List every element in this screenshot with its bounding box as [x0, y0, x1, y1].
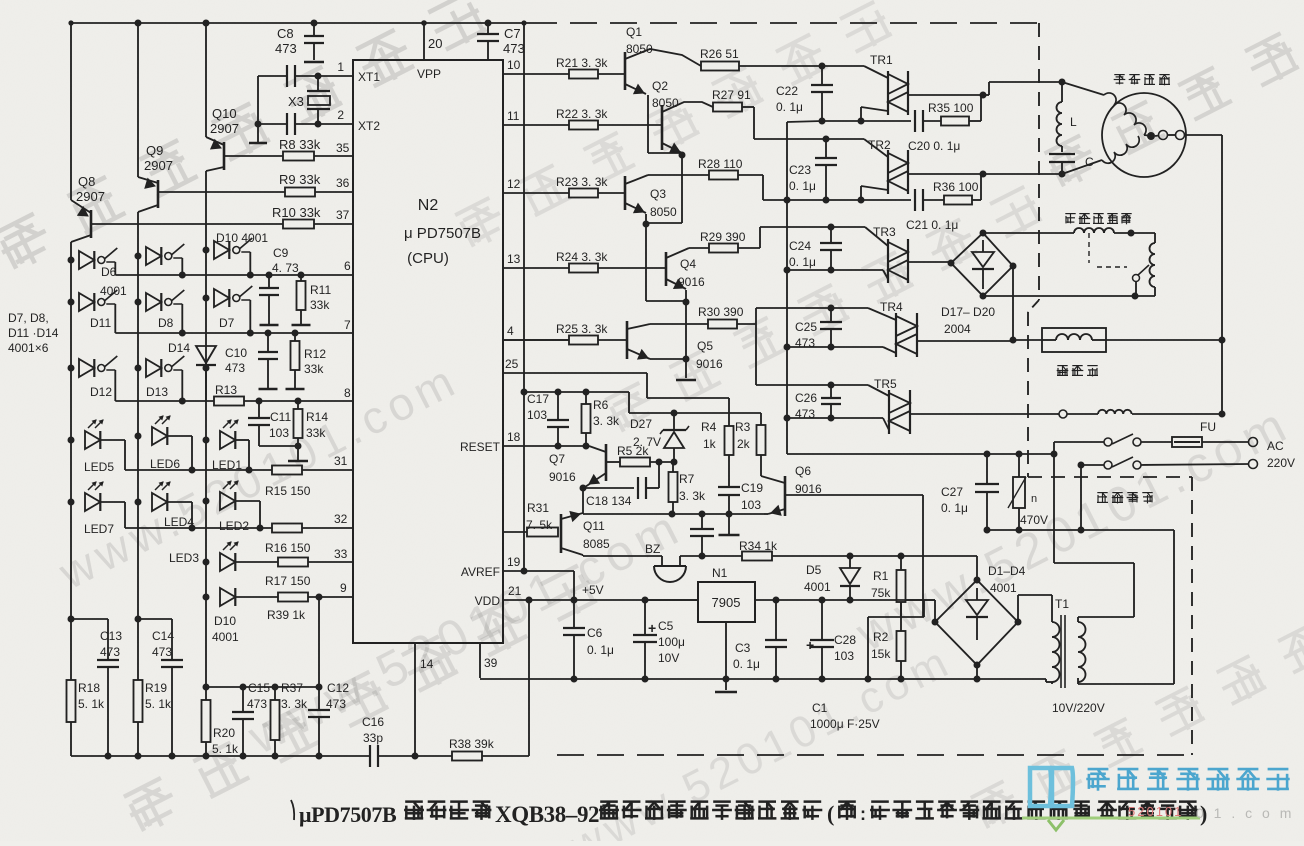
triac TR5	[888, 390, 890, 434]
ground R11	[292, 324, 311, 326]
wire ground rail y679	[480, 678, 977, 680]
resistor R24 3.	[569, 264, 598, 273]
resistor R28 110	[709, 171, 738, 180]
wire pin25 route	[503, 372, 647, 374]
resistor R30 390	[708, 320, 737, 329]
wire pin12 row	[503, 192, 569, 194]
dashed PCB boundary bottom	[557, 754, 1192, 756]
wire Q7 emitter down	[582, 488, 584, 514]
resistor R18 5.1k	[67, 680, 76, 722]
wire motor to right bus	[1185, 134, 1222, 136]
wire TR4 gate line y347	[787, 346, 883, 348]
resistor R22 3.	[569, 121, 598, 130]
wire bus L3	[205, 23, 207, 137]
transistor Q9 2907	[157, 180, 160, 208]
relay contact	[1133, 275, 1140, 282]
capacitor C6 0.1u	[573, 600, 575, 628]
contact circle TR5 row	[1059, 410, 1067, 418]
wire TR5 out row	[1057, 413, 1059, 415]
wire bus B x787	[786, 122, 788, 454]
caption hanzi washing machine application	[600, 800, 618, 803]
triac TR4	[895, 313, 897, 357]
triac TR1	[887, 71, 889, 115]
key diode D7	[203, 295, 210, 302]
LED6	[135, 433, 142, 440]
bridge rectifier D1-D4	[935, 580, 1018, 665]
resistor R29 390	[709, 244, 738, 253]
resistor R19 5.1k	[134, 680, 143, 722]
capacitor C26 473	[828, 382, 835, 389]
wire pin32 row	[125, 527, 272, 529]
motor wire to junction	[1062, 82, 1104, 95]
wire switch row1	[1053, 442, 1055, 454]
motor center node	[1147, 132, 1155, 140]
inlet valve box	[1042, 328, 1106, 352]
wire T1 primary top to switch	[1078, 616, 1134, 618]
key diode D11	[68, 299, 75, 306]
watermark tile left www	[50, 353, 467, 600]
ground xtal	[249, 142, 267, 144]
transistor Q4 9016	[665, 252, 668, 286]
wire pin6 row	[115, 274, 353, 276]
wire pin31 b	[302, 469, 353, 471]
wire pin13 row	[503, 267, 569, 269]
resistor R1 75k	[900, 556, 902, 570]
wire pin8 row	[115, 400, 214, 402]
key diode D8	[135, 299, 142, 306]
wire pin32 b	[302, 527, 353, 529]
caption hanzi zhu	[838, 800, 856, 803]
dashed PCB boundary switch-box right	[1191, 477, 1193, 755]
caption hanzi note text a	[871, 800, 889, 803]
LED7	[68, 499, 75, 506]
crystal X3	[317, 76, 319, 91]
wire L3 node 686	[203, 684, 210, 691]
resistor R12 33k	[292, 330, 299, 337]
resistor R5 2k	[606, 461, 620, 463]
inductor drain solenoid	[1074, 228, 1114, 233]
wire node line y514	[583, 513, 764, 515]
wire Q5 base link	[598, 339, 627, 341]
wire fuse to AC	[1202, 441, 1249, 443]
switch contact S2b	[1133, 461, 1141, 469]
wire bridge top to R34 line	[976, 556, 978, 580]
wire pin9 b	[308, 596, 353, 598]
watermark top-right hanzi	[1042, 0, 1304, 192]
dashed PCB boundary top	[530, 22, 1039, 24]
wire T1 secondary bottom to ground rail	[1046, 681, 1052, 683]
wire TR2 gate line y200	[787, 199, 861, 201]
wire TR3 gate line y270	[787, 269, 883, 271]
transistor Q1 8050	[624, 52, 627, 90]
capacitor C8	[313, 23, 315, 36]
resistor R26 51	[701, 62, 739, 71]
wire TR2 out to motor C	[983, 173, 1062, 175]
logo blue book	[1030, 768, 1073, 806]
ground C10	[259, 388, 278, 390]
watermark bottom-right hanzi	[969, 592, 1304, 833]
wire relay bottom line	[983, 295, 1135, 297]
resistor R20 5.1k	[202, 700, 211, 742]
diode D5 4001	[849, 556, 851, 568]
dashed PCB boundary switch-box top	[1028, 476, 1192, 478]
transformer T1 primary lead	[1077, 678, 1079, 684]
motor terminals	[1159, 131, 1168, 140]
wire row2 to AC2	[1141, 464, 1249, 465]
capacitor xtal upper	[295, 75, 318, 77]
wire VPP pin 20	[423, 23, 425, 60]
key diode D12	[68, 365, 75, 372]
wire +V vertical x524	[523, 23, 525, 571]
resistor R3 2k	[760, 413, 762, 425]
junction L2 top	[135, 20, 142, 27]
diode D10	[203, 594, 210, 601]
wire switch row2	[1078, 462, 1085, 469]
transistor Q11 8085	[560, 514, 563, 553]
wire R27 to TR2	[742, 106, 754, 108]
wire pin39 stub	[479, 643, 481, 678]
resistor R35 100	[941, 117, 969, 126]
wire left bus L1	[70, 23, 72, 200]
regulator N1 7905 box	[698, 582, 755, 622]
wire solenoid top line	[983, 232, 1074, 234]
label motor hanzi	[1114, 74, 1124, 76]
watermark tile bottom-left hanzi	[122, 564, 600, 836]
capacitor C19 103	[718, 486, 740, 488]
LED3	[203, 559, 210, 566]
wire R1 to R2 node	[900, 602, 902, 631]
wire 7905 left to VDD	[645, 599, 698, 601]
ground x729	[719, 534, 740, 536]
diode D14 vertical	[203, 365, 210, 372]
capacitor C18 134	[583, 487, 634, 489]
wire pin11 row	[503, 124, 569, 126]
transistor Q3 8050	[624, 176, 627, 210]
caption hanzi zai-rongshida	[405, 800, 423, 803]
ground C9	[260, 324, 279, 326]
key diode D10a	[203, 247, 210, 254]
wire TR3 out to bridge	[950, 261, 951, 263]
wire bus L2	[137, 23, 139, 177]
wire bridge left to VDD line	[934, 600, 936, 622]
wire R36 to TR2 out	[972, 199, 981, 201]
wire XT1 pin1	[318, 75, 353, 77]
wire pin35 row	[224, 155, 283, 157]
caption green underline	[1022, 817, 1200, 820]
resistor R15 150	[272, 466, 302, 475]
watermark tile top-left hanzi	[0, 0, 490, 274]
resistor R8 33k	[283, 152, 314, 161]
wire to dewater coil	[1067, 413, 1098, 415]
inductor dewater	[1098, 410, 1132, 414]
wire pin36 row	[158, 191, 285, 193]
triac TR2	[887, 150, 889, 194]
terminal AC1	[1249, 438, 1258, 447]
relay armature dashed link	[1088, 233, 1090, 263]
wire to fuse	[1141, 441, 1172, 443]
logo blue hanzi	[1088, 768, 1109, 771]
bridge rectifier D17-D20	[951, 233, 1013, 296]
capacitor C12 473	[318, 597, 320, 687]
capacitor C23 0.1u	[823, 136, 830, 143]
varistor 470V	[1018, 454, 1020, 477]
LED1	[203, 437, 210, 444]
key diode D13	[135, 365, 142, 372]
wire pin33 row	[235, 561, 278, 563]
wire switch loop right	[1081, 529, 1174, 531]
wire pin33 b	[308, 561, 353, 563]
capacitor C17 103	[555, 389, 562, 396]
resistor R17 150	[278, 558, 308, 567]
capacitor C10	[265, 330, 272, 337]
capacitor C11 103	[256, 398, 263, 405]
wire 7905 input line	[755, 599, 935, 601]
transistor Q2 8050	[661, 105, 664, 150]
wire TR1 gate line y121	[787, 121, 822, 122]
resistor R36 100	[944, 196, 972, 205]
resistor R14 33k	[295, 398, 302, 405]
wire emitter chain down	[645, 224, 647, 301]
watermark top-middle hanzi	[453, 1, 894, 252]
wire bottom bus right of C16	[378, 755, 452, 757]
wire RESET pin18 row	[503, 445, 589, 447]
CPU U-N2 uPD7507B box	[353, 60, 503, 643]
paper noise overlay	[0, 0, 1, 1]
resistor R37 3.3k	[272, 684, 279, 691]
wire bottom bus left	[71, 755, 370, 757]
LED4	[135, 499, 142, 506]
switch contact S1a	[1104, 438, 1112, 446]
capacitor xtal lower	[295, 123, 318, 125]
wire pin7 row	[115, 332, 353, 334]
wire T1 secondary top to bridge	[1051, 595, 1053, 617]
capacitor C28 103	[821, 600, 823, 640]
transistor Q10 2907	[223, 142, 226, 170]
resistor R23 3.	[569, 189, 598, 198]
wire pin4 row	[503, 339, 569, 341]
resistor R38 39k	[452, 752, 482, 761]
capacitor C21 0.1u	[861, 199, 911, 201]
key diode D6	[68, 257, 75, 264]
transistor Q8 2907	[90, 210, 93, 238]
wire R38 to AVREF riser	[482, 755, 529, 757]
resistor R9 33k	[285, 188, 315, 197]
wire C13 C14 top link	[68, 616, 75, 623]
wire R28 to TR2 gate line	[738, 174, 763, 176]
capacitor C16 33p (series)	[369, 745, 371, 767]
wire stub x729 gnd	[728, 514, 730, 534]
junction L3 top	[203, 20, 210, 27]
wire varistor bottom line	[987, 529, 1081, 531]
capacitor across buzzer	[701, 514, 703, 529]
resistor R11 33k	[298, 272, 305, 279]
switch contact S1b	[1133, 438, 1141, 446]
watermark right www.520101.com	[847, 395, 1300, 663]
fuse FU	[1172, 437, 1202, 447]
wire top +V bus	[71, 22, 530, 24]
wire VDD pin21 row	[503, 599, 698, 601]
triac TR3	[887, 239, 889, 283]
wire bridge bottom to rail	[976, 665, 978, 679]
motor winding upper	[1104, 93, 1146, 135]
zener D27 2.7V	[671, 410, 678, 417]
wire TR4 out row	[1013, 339, 1042, 341]
wire pin14 stub	[414, 643, 416, 756]
capacitor C motor	[1049, 153, 1075, 155]
wire node 392->413 jog	[628, 392, 630, 413]
wire Q5 emitter ground	[685, 302, 687, 359]
ground below C8	[304, 61, 324, 63]
capacitor C7	[487, 23, 489, 34]
wire R30 to TR4/TR5 feeds	[737, 323, 756, 325]
resistor R21 3.	[569, 70, 598, 79]
capacitor C22 0.1u	[821, 66, 823, 85]
label power switch hanzi	[1097, 492, 1107, 494]
wire TR5 feed	[756, 384, 831, 386]
capacitor C25 473	[828, 305, 835, 312]
wire XT2 pin2	[318, 123, 353, 125]
ground Q4Q5 emitters	[676, 379, 696, 381]
wire pin37 row	[91, 223, 283, 225]
resistor R39 1k	[278, 593, 308, 602]
watermark center www.520101.com	[239, 498, 692, 766]
capacitor C27 0.1u	[986, 454, 988, 484]
wire solenoid to relay coil	[1131, 232, 1155, 234]
resistor R6 3.3k	[583, 389, 590, 396]
junction XT1 node	[315, 73, 322, 80]
resistor R31 7.5k	[503, 531, 527, 533]
wire pin8 row b	[244, 400, 353, 402]
relay coil vertical	[1150, 243, 1156, 287]
watermark center-right hanzi	[603, 186, 1044, 437]
LED2	[203, 498, 210, 505]
wire AVREF pin19	[503, 570, 524, 572]
wire dewater to right bus	[1132, 413, 1222, 415]
wire xtal left leg	[257, 76, 259, 142]
label inlet valve hanzi	[1057, 365, 1067, 367]
wire R26 to TR1	[739, 65, 822, 67]
motor winding lower	[1102, 136, 1139, 163]
junction L1 top	[68, 20, 73, 25]
resistor R34 1k	[702, 555, 742, 557]
wire R29 to TR3	[738, 247, 760, 249]
resistor R13	[214, 397, 244, 406]
resistor R10 33k	[283, 220, 314, 229]
resistor R16 150	[272, 524, 302, 533]
wire bridge right to valve line	[1012, 266, 1014, 340]
caption left parenthesis	[291, 800, 294, 820]
key diode row1-L2	[135, 253, 142, 260]
wire TR1 out to motor	[983, 94, 989, 96]
inductor L motor	[1059, 79, 1066, 86]
wire C27 node line y454	[984, 451, 991, 458]
wire bus B to C27 line	[787, 453, 987, 455]
wire valve to right bus	[1106, 339, 1222, 341]
resistor R4 1k	[725, 426, 734, 455]
capacitor C5 100u 10V	[644, 600, 646, 635]
transistor Q5 9016	[626, 321, 629, 359]
capacitor C9	[266, 272, 273, 279]
terminal AC2	[1249, 460, 1258, 469]
ground R14 C11	[288, 460, 308, 462]
transistor Q6 9016	[784, 476, 787, 516]
capacitor C14	[161, 659, 183, 661]
wire top bus 392	[521, 389, 528, 396]
resistor R27 91	[713, 103, 742, 112]
wire AVREF jog to +5V	[524, 570, 574, 572]
wire Q1Q2 emitter chain	[681, 155, 683, 223]
wire pin10 row	[503, 73, 569, 75]
resistor R7 3.3k	[669, 472, 678, 502]
capacitor C24 0.1u	[828, 224, 835, 231]
capacitor C15 473	[240, 684, 247, 691]
label drain solenoid hanzi	[1065, 213, 1075, 215]
wire Q11 emitter to BZ	[583, 555, 662, 557]
ground R12	[286, 388, 305, 390]
switch blade S1	[1112, 434, 1133, 444]
switch contact S2a	[1104, 461, 1112, 469]
caption hanzi note text b	[1098, 800, 1116, 803]
watermark bottom middle www	[561, 636, 959, 846]
capacitor C20 0.1u	[861, 120, 911, 122]
capacitor C13	[97, 659, 119, 661]
motor circle	[1102, 93, 1186, 177]
wire TR5 gate line y418	[787, 417, 883, 419]
capacitor C3 0.1u	[775, 600, 777, 640]
buzzer BZ	[654, 565, 686, 567]
resistor R2 15k	[897, 631, 906, 661]
wire pin9 row	[235, 596, 278, 598]
LED5	[68, 437, 75, 444]
wire R35 up to TR1 out	[969, 120, 981, 122]
ground 7905	[725, 622, 727, 690]
switch blade S2	[1112, 457, 1133, 467]
transistor Q7 9016	[605, 444, 608, 481]
transformer T1	[1051, 617, 1053, 622]
wire pin31 row	[125, 469, 272, 471]
dashed PCB boundary right vertical	[1038, 23, 1040, 300]
junction XT2 node	[315, 121, 322, 128]
resistor R25 3.	[569, 336, 598, 345]
